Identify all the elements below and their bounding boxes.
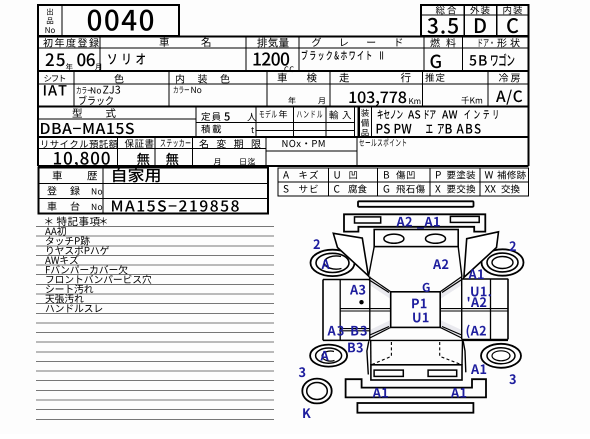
rating divider 2	[496, 5, 498, 36]
small CC	[284, 66, 293, 72]
legend v4	[480, 168, 481, 196]
header 車台	[48, 202, 80, 211]
table bottom	[38, 165, 529, 167]
rating value C	[507, 18, 518, 33]
headlight R	[426, 234, 446, 243]
v 装備品 label right	[371, 107, 372, 138]
notes rule 14	[36, 351, 274, 352]
notes rule 18	[36, 390, 274, 391]
small 月	[95, 64, 101, 71]
front top bar	[358, 201, 474, 207]
header セールスポイント	[359, 138, 406, 146]
equip B	[446, 124, 452, 134]
note フロントバンパービス穴	[46, 275, 151, 284]
v 車名/排気量	[246, 37, 247, 72]
header リサイクル預託額	[42, 140, 118, 149]
hatch side L	[370, 340, 372, 364]
label A1 bumper L	[373, 388, 388, 398]
notes rule 9	[36, 303, 274, 304]
header 冷房	[499, 73, 520, 82]
label A2 _A1 front bumper	[396, 217, 439, 229]
label 3 wheel RL	[299, 367, 305, 377]
header 登録	[47, 186, 80, 195]
rear diag R	[440, 327, 462, 339]
value year 25	[46, 53, 65, 66]
hood edge L	[369, 247, 375, 277]
header モデル	[260, 110, 277, 118]
legend mid line	[278, 182, 529, 183]
wheel RL inner	[316, 348, 342, 363]
rear panel	[371, 365, 462, 380]
notes rule 1	[36, 226, 274, 227]
v NOx/セールス	[357, 137, 358, 166]
legend 腐食	[348, 185, 366, 194]
label 2 wheel FR	[509, 241, 515, 251]
rating header 内装	[503, 6, 522, 15]
wheel RR outer	[481, 344, 521, 368]
label P1 roof	[412, 299, 426, 309]
legend 要塗装	[447, 171, 475, 180]
note Fバンパーカバー欠	[46, 265, 128, 274]
lot no label 出品	[47, 8, 53, 15]
legend v2	[377, 168, 378, 196]
equip label 品	[361, 129, 368, 136]
notes rule 7	[36, 284, 274, 285]
label A1 fender FR	[468, 269, 483, 279]
wheel RR inner	[487, 348, 515, 364]
left edge	[37, 37, 39, 166]
notes header asterisk2	[100, 217, 107, 225]
note タッチP跡	[46, 236, 90, 245]
right edge	[528, 37, 530, 166]
rating divider 1	[463, 5, 465, 36]
small ブラック	[79, 96, 113, 106]
equip AS	[408, 110, 420, 118]
legend U 凹	[334, 171, 339, 178]
header シフト	[44, 75, 65, 82]
value recycle 10,800	[54, 152, 110, 168]
label A in wheel RL	[320, 351, 328, 361]
wheel FL outer	[311, 250, 355, 276]
rating value D	[475, 18, 486, 33]
v グレード/燃料	[424, 37, 425, 72]
small 年 shaken	[288, 97, 295, 104]
v 排気量/グレード	[299, 37, 300, 72]
label A1 qtr R	[471, 364, 486, 374]
label K spare	[303, 408, 311, 418]
lot box divider	[61, 5, 62, 36]
value grade ブラック&ホワイトII	[302, 50, 383, 60]
v 内装色/車検	[267, 71, 268, 107]
rating header underline	[421, 14, 529, 15]
label A2 door FR	[468, 297, 487, 307]
header 輸入	[329, 111, 351, 120]
door line R	[440, 309, 508, 311]
v 保証書/ステッカー	[155, 137, 156, 166]
wheel FL mid	[316, 253, 349, 272]
fender FL	[333, 233, 368, 275]
equip PW	[395, 124, 412, 134]
lot no label 品	[47, 18, 53, 25]
front panel	[374, 230, 458, 247]
header 形状	[497, 38, 519, 47]
hatch side R	[461, 340, 464, 364]
side panel L bottom	[323, 339, 370, 341]
legend box	[278, 168, 529, 196]
history label divider	[103, 168, 104, 214]
legend サビ	[299, 185, 318, 193]
header1 underline	[38, 47, 529, 48]
legend P 要塗装	[436, 171, 441, 178]
cabin edge L	[369, 277, 371, 341]
v モデル年/ハンドル	[293, 107, 294, 138]
value capacity 5	[224, 112, 229, 120]
door divider R	[490, 279, 492, 339]
shade C-pillar R	[440, 320, 462, 338]
rating header 総合	[436, 6, 457, 15]
side panel R outer	[507, 279, 509, 340]
legend A キズ	[283, 171, 289, 178]
value aircon A/C	[496, 90, 522, 105]
header 車歴	[53, 171, 98, 181]
wheel RR arc	[492, 351, 510, 361]
note りヤスポPハゲ	[47, 246, 109, 255]
windshield diag L	[369, 277, 391, 293]
small No interior	[191, 87, 201, 93]
notes rule 17	[36, 380, 274, 381]
notes rule 11	[36, 322, 274, 323]
header NOx・PM	[282, 140, 324, 147]
side panel R top	[462, 278, 508, 280]
notes header 特記事項	[57, 216, 100, 226]
header 走行	[339, 73, 410, 83]
v 色/内装色	[169, 71, 170, 107]
rear quarter edge R	[463, 341, 466, 372]
rear bumper	[346, 379, 486, 397]
header 型式	[72, 108, 115, 118]
label B3 qtr L	[348, 342, 363, 352]
table top	[38, 36, 529, 38]
v 走行/推定	[422, 71, 423, 107]
front bumper insert R	[450, 216, 479, 222]
v ステッカー/名変	[192, 137, 193, 166]
notes rule 13	[36, 342, 274, 343]
lot number box	[38, 5, 179, 36]
small カラー	[77, 87, 92, 94]
small カラー interior	[174, 86, 189, 93]
v 燃料/ドア形状	[462, 37, 463, 72]
header 登録No No	[92, 188, 102, 194]
header 車検	[278, 73, 317, 83]
sill line L	[340, 329, 370, 331]
rating box	[421, 5, 529, 36]
header ステッカー	[161, 139, 191, 147]
hood edge R	[458, 247, 462, 277]
shade A-pillar R	[440, 278, 462, 300]
shade C-pillar L	[370, 320, 391, 338]
型式 header underline	[38, 118, 196, 119]
header 排気量	[257, 38, 288, 48]
v 車検/走行	[330, 71, 331, 107]
label A in wheel FL	[321, 259, 329, 269]
header 初年度登録	[43, 38, 99, 47]
small cells divider	[256, 130, 355, 131]
side panel L top	[323, 279, 370, 281]
label 3 wheel RR	[509, 374, 515, 384]
side panel L outer	[322, 280, 324, 341]
windshield diag R	[440, 277, 462, 293]
header グレード	[312, 38, 402, 47]
header 車名	[160, 37, 211, 47]
equip キセノン	[378, 110, 403, 119]
legend 補修跡	[497, 171, 526, 180]
lot number 0040	[88, 9, 153, 30]
header4 underline	[38, 148, 266, 149]
v 初年度/車名	[100, 37, 101, 72]
label A2 hood	[433, 259, 448, 269]
v リサイクル/保証書	[117, 137, 118, 166]
taillight L	[374, 370, 403, 376]
header 車台No No	[92, 204, 102, 210]
label A3 B3 rocker L	[327, 326, 366, 336]
wheel RL outer	[310, 345, 347, 367]
equip label 備	[361, 119, 369, 127]
legend XX 交換	[485, 185, 496, 192]
label A3 door FL	[350, 285, 365, 295]
value door 5B	[469, 55, 486, 66]
spare tire inner	[307, 383, 328, 400]
value model code DBA-MA15S	[41, 123, 134, 134]
note AWキズ	[45, 255, 78, 264]
notes rule 10	[36, 313, 274, 314]
legend v1	[328, 168, 329, 196]
taillight R	[428, 370, 457, 376]
value car name ソリオ	[108, 53, 145, 64]
dot on door FL	[359, 300, 363, 304]
equip ドア	[425, 110, 436, 119]
notes rule 20	[36, 409, 274, 410]
header モデル年 年	[279, 110, 287, 118]
rating value 3.5	[427, 18, 457, 34]
notes rule 4	[36, 255, 274, 256]
equip AW	[442, 110, 457, 118]
hatch dashed L	[372, 342, 391, 365]
hatch top line	[323, 339, 508, 341]
header ドア・	[479, 39, 493, 47]
door line L	[340, 309, 391, 311]
v 装備品 box left	[358, 107, 361, 138]
notes rule 8	[36, 293, 274, 294]
small 月 shaken	[318, 97, 324, 104]
small t	[251, 127, 254, 133]
note 天張汚れ	[45, 294, 83, 303]
legend キズ	[300, 170, 319, 178]
rating header 外装	[470, 6, 489, 15]
value displacement 1200	[253, 52, 289, 65]
capacity divider	[196, 122, 355, 123]
note ハンドルスレ	[46, 304, 103, 312]
small 日迄	[240, 158, 255, 165]
v 定員/モデル年	[256, 107, 257, 138]
history row1 underline	[39, 183, 269, 184]
rear diag L	[370, 327, 391, 339]
header2 underline	[38, 83, 529, 84]
value 無 1	[137, 153, 150, 166]
wheel FR arc	[492, 257, 513, 269]
value 自家用	[113, 168, 160, 183]
value shift IAT	[44, 85, 67, 95]
small 年	[66, 63, 73, 70]
notes rule 16	[36, 371, 274, 372]
shade A-pillar L	[370, 278, 391, 300]
label U1 door FR	[471, 287, 491, 297]
legend 凹	[349, 171, 357, 179]
legend 傷凹	[396, 171, 414, 180]
bottom bar	[357, 403, 473, 413]
front bumper	[344, 214, 485, 231]
header 積載	[201, 125, 221, 134]
wheel FR outer	[482, 249, 524, 275]
v ハンドル/輸入	[325, 107, 326, 138]
door divider L	[339, 280, 341, 341]
header 保証書	[125, 139, 154, 148]
v 型式/定員	[196, 107, 197, 138]
equip エア	[426, 124, 444, 134]
notes header asterisk1	[45, 217, 52, 225]
notes rule 5	[36, 265, 274, 266]
small Km	[409, 98, 420, 104]
value fuel G	[431, 55, 441, 69]
equip ABS	[457, 124, 481, 134]
rear quarter edge L	[367, 341, 369, 374]
header 燃料	[430, 38, 455, 47]
cabin edge R	[461, 277, 463, 340]
v シフト/色	[74, 71, 75, 107]
legend B 傷凹	[384, 171, 389, 178]
small 月 expiry	[214, 158, 220, 165]
header 推定	[425, 73, 444, 82]
legend 要交換	[447, 185, 475, 194]
history box	[39, 168, 269, 214]
header 人	[247, 113, 256, 121]
legend C 腐食	[334, 185, 339, 193]
label U1 roof	[413, 313, 428, 323]
values2 bottom	[38, 106, 529, 108]
v 名変/NOx	[266, 137, 267, 166]
notes rule 21	[36, 419, 274, 420]
fender FR	[464, 232, 499, 278]
wheel RL arc	[322, 351, 334, 361]
spare tire outer	[302, 379, 331, 404]
value door ワゴン	[491, 53, 514, 66]
label 2 wheel FL	[313, 239, 319, 249]
value chassis MA15S-219858	[112, 200, 239, 211]
label G roof	[423, 283, 430, 292]
legend 交換	[501, 185, 519, 194]
legend v3	[430, 168, 431, 196]
header 名変期限	[199, 139, 260, 148]
row3 bottom	[38, 136, 529, 138]
equip label 装	[361, 109, 369, 117]
notes rule 2	[36, 236, 274, 237]
legend W 補修跡	[485, 171, 493, 178]
header 内装色	[176, 74, 230, 83]
equip PS	[377, 124, 390, 134]
legend S サビ	[283, 185, 288, 193]
legend X 要交換	[435, 185, 440, 192]
wheel FL arc	[324, 256, 341, 269]
front bumper insert L	[355, 217, 381, 223]
header 色	[114, 74, 123, 83]
notes rule 6	[36, 274, 274, 275]
equip インテリ	[465, 110, 498, 119]
v 推定/冷房	[488, 71, 489, 107]
side panel R bottom	[462, 338, 508, 340]
label A1 bumper R	[451, 388, 466, 398]
notes rule 15	[36, 361, 274, 362]
note シート汚れ	[46, 284, 93, 293]
hatch dashed R	[440, 342, 461, 365]
header ハンドル	[297, 111, 322, 118]
notes rule 3	[36, 245, 274, 246]
value mileage 103,778	[349, 91, 406, 106]
v 輸入/装備	[354, 107, 355, 138]
wheel FR mid	[487, 253, 518, 272]
roof rect	[391, 292, 441, 328]
legend 飛石傷	[396, 185, 424, 194]
notes rule 19	[36, 400, 274, 401]
label A2 qtr R	[467, 325, 486, 338]
header 定員	[201, 112, 220, 121]
legend G 飛石傷	[384, 185, 390, 193]
notes rule 12	[36, 332, 274, 333]
NOx underline	[266, 151, 357, 152]
note AA初	[45, 227, 66, 236]
values1 bottom	[38, 70, 529, 72]
small No ZJ3 No	[91, 87, 101, 93]
value 無 2	[166, 153, 179, 166]
headlight L	[384, 234, 404, 243]
small 千Km	[461, 96, 482, 104]
history row2 underline	[39, 198, 269, 199]
small ZJ3	[103, 86, 120, 94]
value month 06	[77, 53, 94, 66]
lot no label No	[45, 27, 54, 33]
